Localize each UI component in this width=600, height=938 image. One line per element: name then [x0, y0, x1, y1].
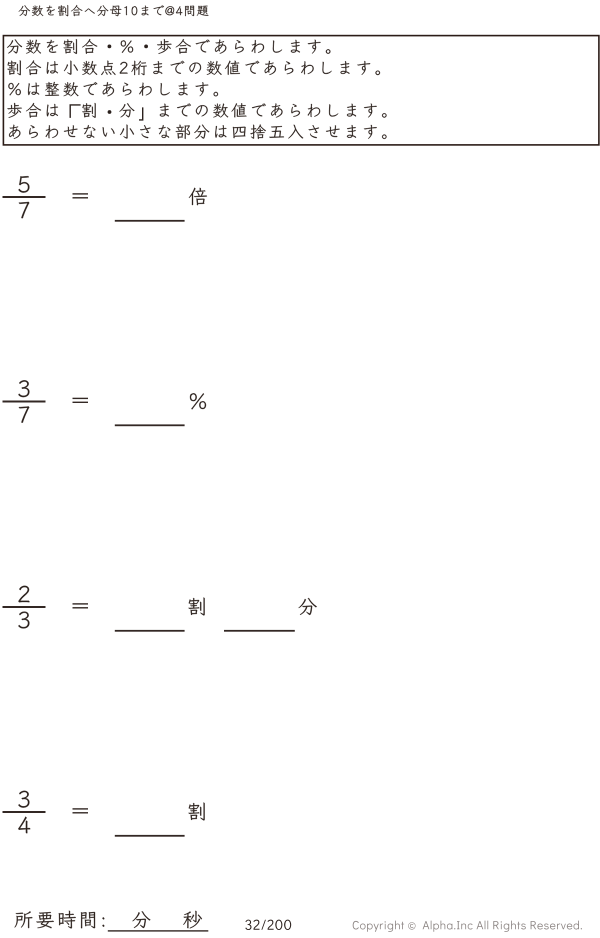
- problem 4 equals sign top bar: [73, 808, 89, 809]
- instruction line 1 middle dot 2: [144, 45, 148, 49]
- problem 3 denominator 3: [19, 612, 30, 629]
- footer label 所要時間:: [15, 911, 105, 929]
- problem 1 equals sign top bar: [73, 193, 89, 194]
- problem 3 numerator 2: [19, 586, 30, 602]
- page number 32/200: [245, 920, 291, 930]
- instruction line 1: [7, 39, 330, 54]
- instruction line 4 middle dot: [108, 110, 112, 114]
- problem 4 numerator 3: [19, 791, 30, 808]
- problem 2 answer blank: [115, 424, 185, 426]
- problem 3 equals sign top bar: [73, 603, 89, 604]
- instruction box border: [3, 36, 599, 145]
- instruction line 1 middle dot 1: [108, 45, 112, 49]
- problem 2 equals sign bottom bar: [73, 402, 89, 403]
- problem 4 equals sign bottom bar: [73, 812, 89, 813]
- problem 1 answer blank: [115, 220, 185, 222]
- instruction line 5: [9, 125, 386, 139]
- problem 3 unit 分: [299, 598, 317, 615]
- problem 1 unit 倍: [189, 188, 207, 205]
- problem 1 numerator 5: [19, 176, 30, 193]
- footer unit 秒: [183, 911, 202, 928]
- problem 4 denominator 4: [18, 817, 30, 834]
- problem 1 denominator 7: [19, 202, 29, 218]
- instruction line 4 close bracket 」: [139, 107, 143, 120]
- instruction line 2: [7, 60, 380, 75]
- problem 2 fraction bar: [3, 401, 46, 403]
- problem 2 denominator 7: [19, 406, 29, 422]
- problem 3 unit 割: [189, 598, 205, 616]
- problem 1 equals sign bottom bar: [73, 197, 89, 198]
- copyright: [353, 921, 582, 932]
- instruction line 3: [8, 82, 218, 96]
- problem 2 numerator 3: [19, 380, 30, 397]
- problem 2 unit ％: [190, 393, 206, 409]
- problem 4 unit 割: [189, 803, 205, 821]
- instruction line 4 open bracket 「: [70, 105, 80, 118]
- problem 3 answer blank 2: [224, 630, 295, 632]
- problem 1 fraction bar: [3, 196, 46, 198]
- problem 3 answer blank: [115, 630, 185, 632]
- footer answer underline: [108, 930, 209, 931]
- header title: [19, 5, 209, 16]
- instruction line 4: [8, 103, 387, 118]
- problem 4 fraction bar: [3, 811, 46, 813]
- problem 2 equals sign top bar: [73, 398, 89, 399]
- footer unit 分: [133, 911, 151, 928]
- problem 3 equals sign bottom bar: [73, 607, 89, 608]
- problem 4 answer blank: [115, 835, 185, 837]
- problem 3 fraction bar: [3, 606, 46, 608]
